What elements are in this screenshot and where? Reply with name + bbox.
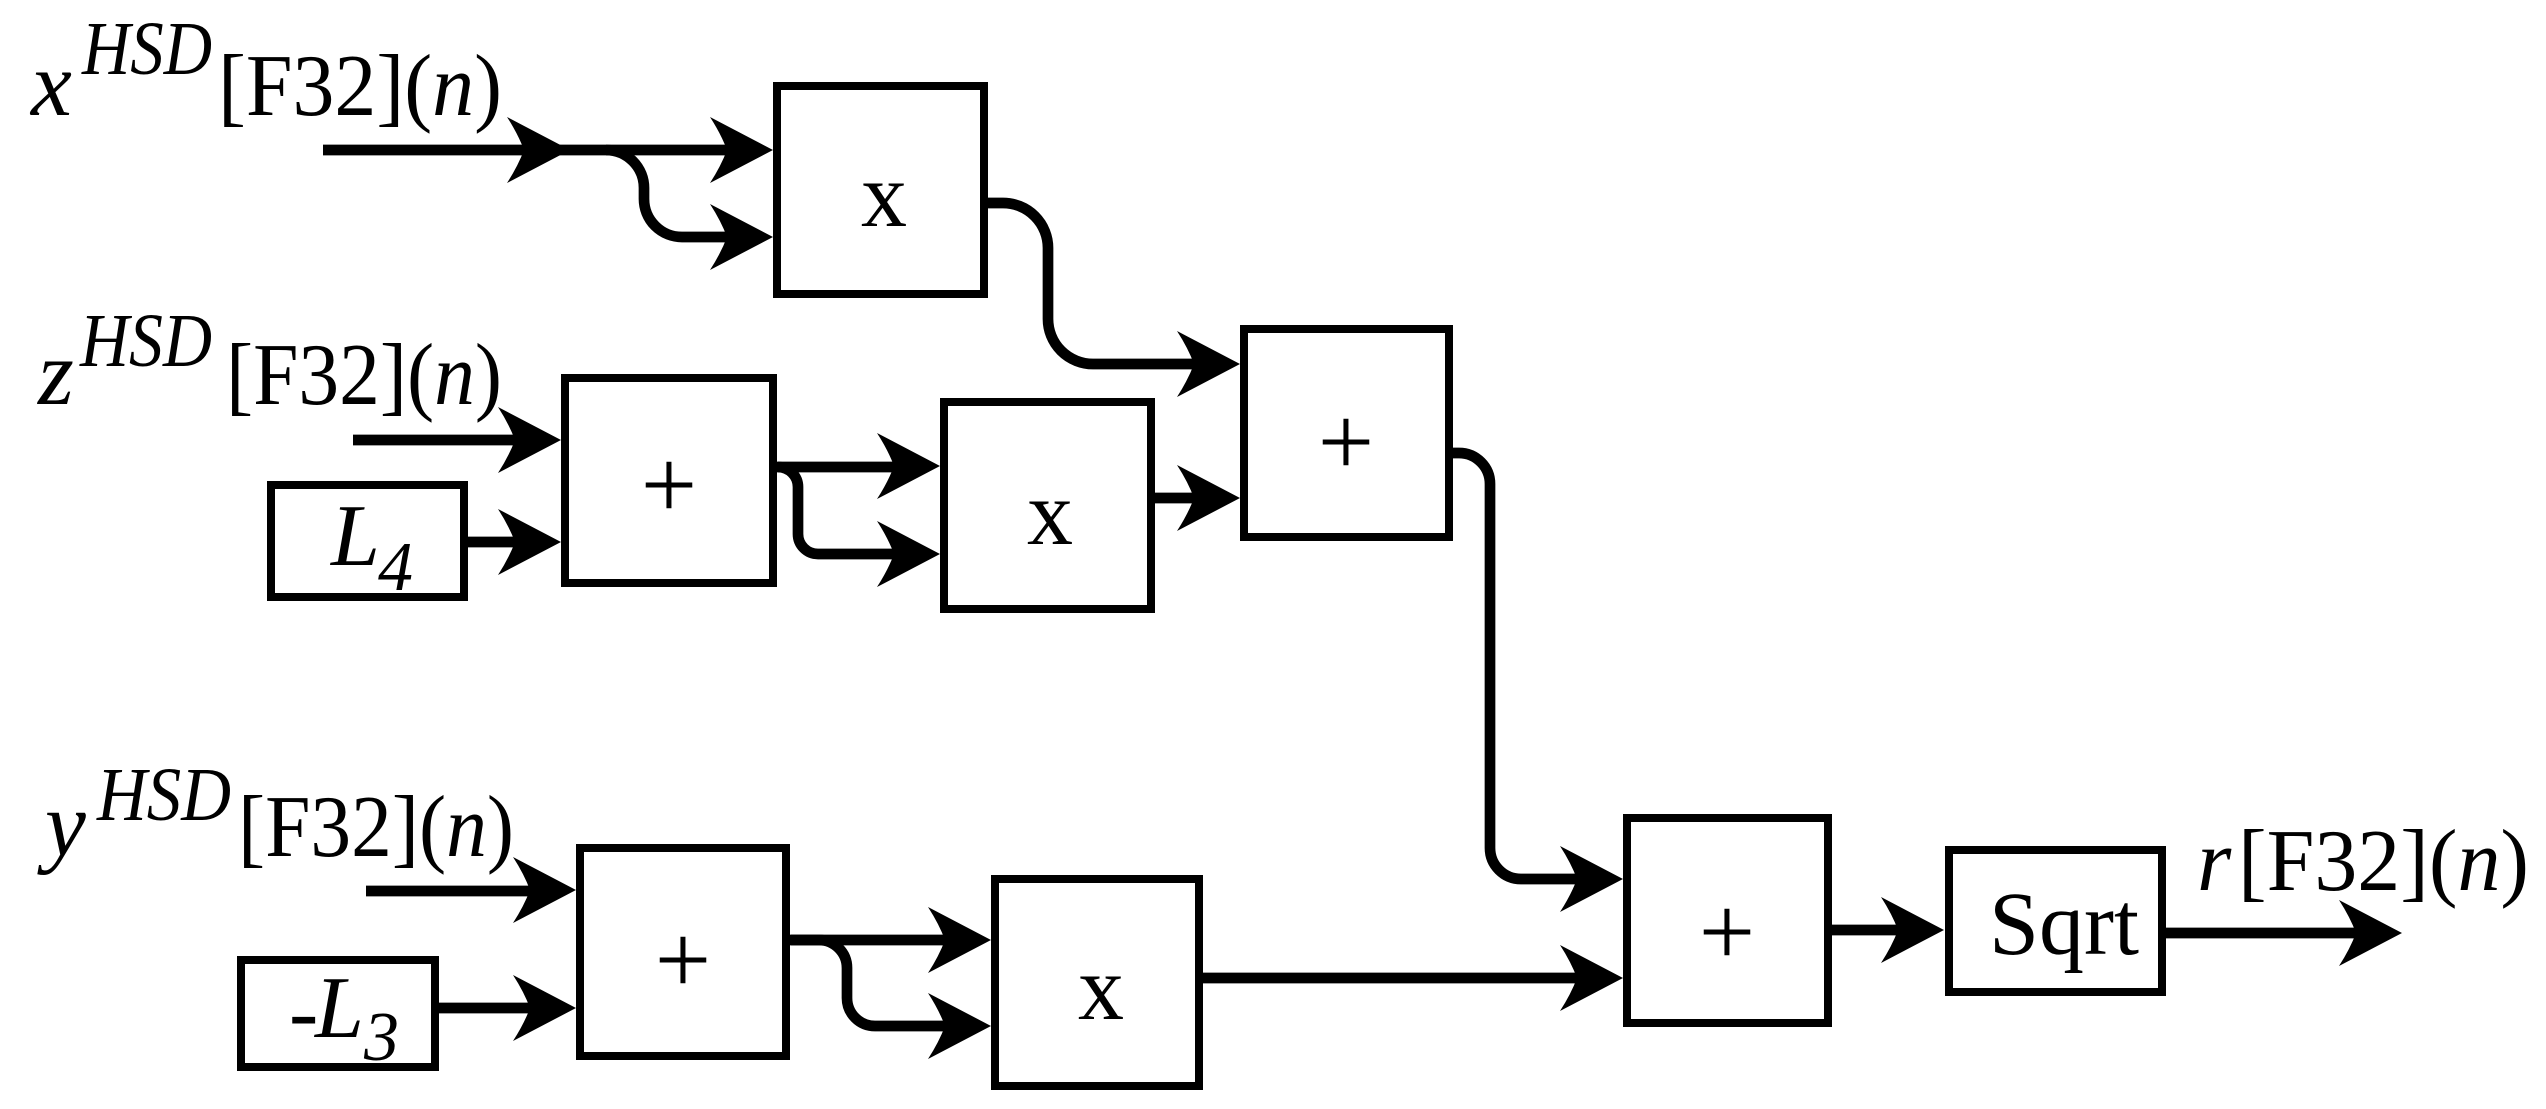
wire U2 output down to adder U4 [1453, 453, 1623, 912]
constant L4 box [271, 485, 464, 606]
wire L4 output [468, 509, 561, 575]
wire U4 output to Sqrt [1832, 897, 1944, 963]
svg-text:y: y [37, 773, 86, 875]
svg-text:[F32](n): [F32](n) [226, 327, 502, 424]
wire y input [366, 857, 576, 923]
svg-text:[F32](n): [F32](n) [218, 38, 502, 135]
node r[F32](n) output label [2197, 813, 2529, 910]
svg-text:x: x [1027, 462, 1073, 564]
svg-text:Sqrt: Sqrt [1989, 875, 2139, 974]
adder U2 (x^2 + (z+L4)^2) [1244, 329, 1449, 537]
node z^HSD[F32](n) input label [36, 299, 502, 424]
wire U3 branch to second input of M3 [791, 940, 991, 1059]
wire r output [2166, 900, 2402, 966]
svg-text:HSD: HSD [81, 7, 212, 91]
svg-text:-: - [289, 964, 318, 1061]
svg-text:z: z [36, 322, 74, 424]
wire x input with mid arrowhead [323, 117, 773, 183]
multiplier M1 (x squared) [777, 86, 984, 294]
svg-text:3: 3 [363, 999, 399, 1076]
node y^HSD[F32](n) input label [37, 753, 514, 876]
constant -L3 box [241, 960, 435, 1076]
Sqrt block U5 [1949, 850, 2162, 992]
wire U1 branch to second input of M2 [778, 467, 940, 587]
adder U4 (final sum) [1627, 818, 1828, 1023]
adder U3 (y - L3) [580, 848, 786, 1056]
wire M2 output to adder U2 [1155, 465, 1240, 531]
svg-text:4: 4 [378, 529, 413, 606]
wire M1 output to adder U2 [988, 203, 1240, 397]
wire M3 output to adder U4 [1203, 945, 1623, 1011]
wire U3 output to first input of M3 [786, 907, 991, 973]
svg-text:HSD: HSD [96, 753, 231, 837]
multiplier M3 ((y-L3) squared) [995, 879, 1199, 1086]
wire -L3 output [437, 975, 576, 1041]
svg-text:+: + [655, 904, 711, 1015]
svg-text:x: x [29, 33, 72, 135]
adder U1 (z + L4) [565, 378, 773, 583]
multiplier M2 ((z+L4) squared) [944, 402, 1151, 609]
svg-text:x: x [1078, 937, 1124, 1039]
wire z input [353, 407, 561, 473]
svg-text:+: + [641, 429, 697, 540]
svg-text:[F32](n): [F32](n) [2238, 813, 2529, 910]
svg-text:+: + [1699, 876, 1755, 987]
svg-text:L: L [313, 960, 364, 1057]
node x^HSD[F32](n) input label [29, 7, 502, 135]
svg-text:HSD: HSD [79, 299, 212, 383]
svg-text:x: x [861, 144, 907, 246]
svg-text:[F32](n): [F32](n) [238, 779, 514, 876]
wire U1 output to first input of M2 [777, 433, 940, 499]
svg-text:r: r [2197, 813, 2232, 910]
svg-text:+: + [1318, 386, 1374, 497]
wire x branch to second input of M1 [606, 150, 773, 270]
svg-text:L: L [329, 488, 380, 585]
